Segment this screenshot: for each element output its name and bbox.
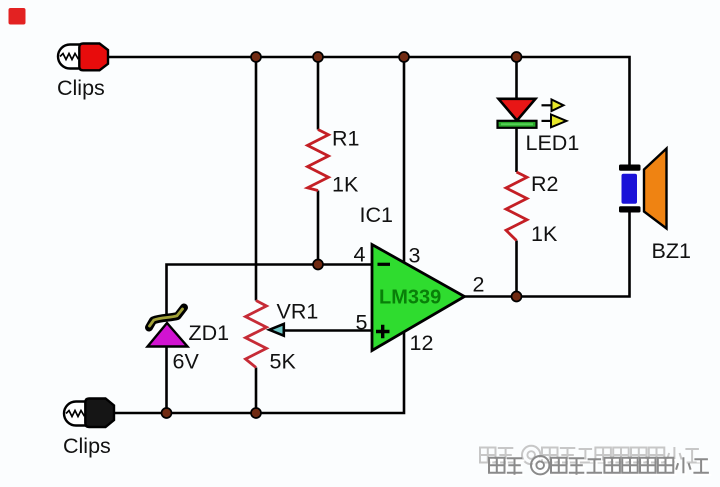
svg-text:5: 5 — [356, 311, 368, 335]
svg-text:BZ1: BZ1 — [652, 239, 691, 263]
VR1 wiper arrow — [269, 324, 284, 336]
op-amp IC1 LM339 comparator triangle — [372, 245, 465, 351]
svg-text:Clips: Clips — [57, 76, 105, 100]
wire VR1 top lead — [255, 57, 258, 301]
svg-text:R1: R1 — [332, 127, 359, 151]
junction dot top rail / LED1 — [512, 52, 522, 62]
LED light arrow upper — [542, 100, 564, 112]
wire VR1 bottom lead — [255, 368, 258, 414]
svg-text:R2: R2 — [531, 172, 558, 196]
red square artifact (top-left) — [9, 8, 26, 25]
wire R1 top lead — [317, 57, 320, 130]
minus input mark — [378, 263, 391, 266]
wire LED1 top lead — [515, 57, 518, 101]
wire ZD1 bottom lead — [165, 346, 168, 414]
svg-text:ZD1: ZD1 — [189, 321, 230, 345]
zener diode ZD1 — [148, 308, 188, 347]
wire output net apex to buzzer bottom — [465, 212, 630, 297]
wire top rail from red clip to buzzer drop — [108, 57, 630, 165]
svg-text:2: 2 — [473, 273, 485, 297]
watermark emboss white layer — [491, 458, 711, 477]
svg-text:LM339: LM339 — [379, 287, 441, 309]
wire LED1 to R2 lead — [515, 124, 518, 172]
junction dot top rail / VR1 — [251, 52, 261, 62]
wire R2 bottom lead to output net — [515, 241, 518, 297]
watermark ghost layer — [480, 446, 700, 465]
junction dot top rail / R1 — [313, 52, 323, 62]
red clip (top left) — [58, 44, 108, 71]
svg-text:LED1: LED1 — [526, 131, 580, 155]
junction dot R1 / pin4 net — [313, 260, 323, 270]
svg-text:3: 3 — [409, 244, 421, 268]
resistor R2 — [506, 172, 527, 241]
wire pin4 net and ZD1 top lead — [167, 265, 373, 315]
wire pin 3 lead — [403, 57, 406, 263]
junction dot bottom rail / VR1 — [251, 408, 261, 418]
svg-text:VR1: VR1 — [277, 300, 319, 324]
svg-text:Clips: Clips — [63, 434, 111, 458]
LED LED1 — [498, 99, 537, 128]
potentiometer VR1 — [246, 301, 267, 368]
buzzer BZ1 — [619, 149, 667, 229]
black clip (bottom left) — [64, 399, 114, 428]
svg-text:12: 12 — [410, 331, 434, 355]
svg-text:6V: 6V — [173, 350, 200, 374]
junction dot top rail / pin3 — [399, 52, 409, 62]
junction dot R2 / output net — [512, 292, 522, 302]
svg-text:IC1: IC1 — [360, 203, 393, 227]
wire pin5 wiper line — [284, 329, 372, 332]
svg-text:1K: 1K — [332, 173, 359, 197]
resistor R1 — [308, 130, 329, 191]
svg-text:1K: 1K — [531, 222, 558, 246]
watermark main layer — [489, 456, 709, 475]
svg-text:5K: 5K — [270, 350, 297, 374]
plus input mark — [376, 325, 390, 338]
LED light arrow lower — [542, 115, 567, 128]
wire bottom rail and pin 12 lead — [114, 333, 404, 414]
svg-text:4: 4 — [354, 243, 366, 267]
wire R1 bottom lead to pin4 net — [317, 191, 320, 265]
junction dot bottom rail / ZD1 — [162, 408, 172, 418]
